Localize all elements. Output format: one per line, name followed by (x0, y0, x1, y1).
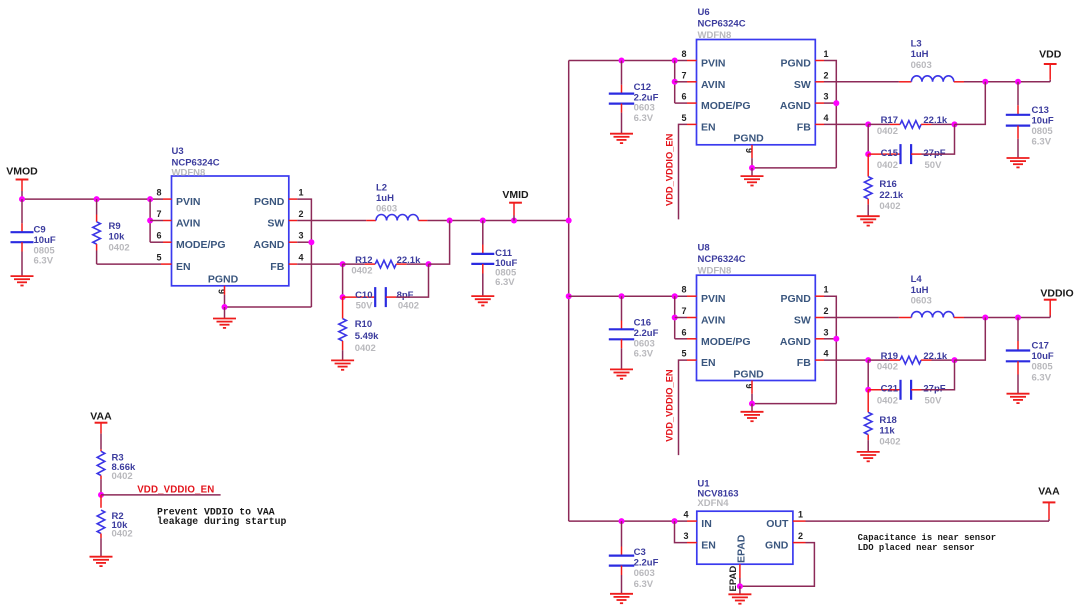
wire AGND pin3 U6 (824, 102, 836, 104)
op-amp U3 NCP6324C buck regulator body (172, 146, 289, 286)
wire EPAD U1 (739, 578, 741, 586)
junction EPAD (737, 583, 743, 589)
svg-text:0603: 0603 (376, 203, 397, 214)
svg-text:1uH: 1uH (911, 285, 929, 296)
junction C21 left (865, 387, 871, 393)
capacitor C15 (868, 144, 946, 171)
svg-text:5.49k: 5.49k (355, 331, 379, 342)
ground R18 (857, 452, 880, 461)
svg-text:R9: R9 (109, 221, 121, 232)
svg-text:AVIN: AVIN (176, 218, 200, 230)
svg-text:AVIN: AVIN (701, 315, 725, 327)
svg-text:8pF: 8pF (397, 290, 414, 301)
pin numbers U8 (681, 285, 828, 389)
svg-text:1: 1 (823, 285, 828, 295)
svg-text:EN: EN (701, 357, 716, 369)
wire PVIN-AVIN-MODE branch (149, 199, 151, 242)
junction U8 FB node (865, 357, 871, 363)
svg-text:6.3V: 6.3V (634, 349, 654, 360)
svg-text:6.3V: 6.3V (1032, 137, 1052, 148)
svg-text:WDFN8: WDFN8 (172, 167, 206, 178)
svg-text:6.3V: 6.3V (634, 579, 654, 590)
svg-text:0402: 0402 (877, 362, 898, 373)
svg-text:VMOD: VMOD (6, 166, 38, 178)
svg-text:EN: EN (701, 121, 716, 133)
svg-text:L2: L2 (376, 182, 387, 193)
junction C11 (480, 218, 486, 224)
junction R19 right (952, 357, 958, 363)
junction VMOD/R9 (94, 196, 100, 202)
wire FB node down to C15 (867, 124, 869, 154)
op-amp U8 NCP6324C buck regulator body (697, 243, 816, 381)
svg-text:2.2uF: 2.2uF (634, 558, 659, 569)
wire FB node down to C10 (342, 264, 344, 297)
svg-text:VAA: VAA (90, 410, 112, 422)
svg-text:0402: 0402 (351, 266, 372, 277)
svg-text:U6: U6 (698, 7, 710, 18)
svg-text:PGND: PGND (780, 293, 811, 305)
svg-text:VAA: VAA (1038, 486, 1060, 498)
svg-text:3: 3 (823, 327, 828, 337)
svg-text:1uH: 1uH (376, 193, 394, 204)
wire EN U6 net VDD_VDDIO_EN (679, 124, 688, 219)
svg-text:6: 6 (681, 92, 686, 102)
svg-text:WDFN8: WDFN8 (698, 30, 732, 41)
ground C11 (471, 296, 494, 305)
inductor L2 (376, 182, 418, 220)
svg-text:0603: 0603 (911, 296, 932, 307)
junction C17 top (1015, 315, 1021, 321)
pin stubs U3 (161, 199, 297, 295)
junction C16 top (619, 293, 625, 299)
svg-text:VDD_VDDIO_EN: VDD_VDDIO_EN (664, 369, 674, 442)
capacitor C21 (868, 380, 946, 407)
svg-text:2: 2 (798, 531, 803, 541)
wire PGND to ground (224, 307, 226, 319)
ground C12 (610, 134, 633, 143)
svg-text:PVIN: PVIN (176, 196, 201, 208)
junction U6 FB node (865, 121, 871, 127)
svg-text:VDD_VDDIO_EN: VDD_VDDIO_EN (664, 133, 674, 206)
pin numbers U3 (156, 188, 303, 294)
svg-text:5: 5 (681, 349, 686, 359)
wire rail to PVIN U8 (569, 295, 687, 297)
junction C12 top (619, 58, 625, 64)
junction U8 SW fb tap (982, 315, 988, 321)
capacitor C9 (11, 199, 56, 276)
junction C3 top (619, 518, 625, 524)
wire GND pin2 U1 (740, 543, 815, 587)
junction U6 AGND (833, 100, 839, 106)
wire branch to MODE/PG pin (150, 241, 163, 243)
wire VMOD stub (21, 180, 23, 192)
wire VAA to R3 (100, 423, 102, 434)
junction VMOD/C9 (19, 196, 25, 202)
svg-text:FB: FB (797, 357, 811, 369)
svg-text:0402: 0402 (355, 343, 376, 354)
wire VMID rail vertical (568, 61, 570, 522)
svg-text:SW: SW (794, 79, 811, 91)
capacitor C12 (609, 61, 659, 134)
junction rail/VMID (566, 218, 572, 224)
svg-text:R10: R10 (355, 319, 372, 330)
svg-text:6.3V: 6.3V (495, 277, 515, 288)
wire PGND pin1 down right side (297, 199, 311, 307)
note LDO placement (858, 533, 996, 553)
wire OUT to VAA (806, 520, 1050, 522)
capacitor C13 (1006, 82, 1054, 158)
ground C3 (610, 594, 633, 603)
junction R17 right (952, 121, 958, 127)
power symbol VAA divider (90, 410, 112, 422)
svg-text:R12: R12 (355, 255, 372, 266)
junction PVIN branch (147, 196, 153, 202)
junction U6 AVIN (672, 79, 678, 85)
svg-text:PGND: PGND (208, 273, 239, 285)
svg-text:AGND: AGND (780, 100, 811, 112)
capacitor C11 (471, 221, 517, 297)
junction U6 SW fb tap (982, 79, 988, 85)
resistor R3 (97, 449, 136, 495)
svg-text:PVIN: PVIN (701, 293, 726, 305)
svg-text:7: 7 (681, 306, 686, 316)
ground R10 (331, 360, 354, 369)
wire FB node down to C21 (867, 360, 869, 390)
wire SW to L3 (824, 81, 899, 83)
wire C10 right up to R12 right (396, 264, 429, 297)
svg-text:VDD: VDD (1039, 49, 1062, 61)
svg-text:3: 3 (823, 92, 828, 102)
junction C13 top (1015, 79, 1021, 85)
svg-text:AGND: AGND (253, 239, 284, 251)
svg-text:PGND: PGND (733, 133, 764, 145)
wire PGND bottom U6 (752, 167, 836, 169)
svg-text:6.3V: 6.3V (634, 113, 654, 124)
wire FB to R12 (297, 263, 342, 265)
resistor R17 (868, 115, 954, 137)
inductor L3 (911, 38, 954, 81)
svg-text:3: 3 (683, 531, 688, 541)
svg-text:10k: 10k (109, 232, 126, 243)
svg-text:5: 5 (681, 113, 686, 123)
pin numbers U1 (683, 510, 803, 592)
svg-text:1: 1 (798, 510, 803, 520)
wire EN U8 net VDD_VDDIO_EN (679, 360, 688, 455)
svg-text:1: 1 (298, 188, 303, 198)
wire SW to L4 (824, 317, 899, 319)
pin stubs U1 (687, 521, 806, 578)
ground C17 (1007, 394, 1030, 403)
svg-text:7: 7 (156, 209, 161, 219)
svg-text:PGND: PGND (254, 196, 285, 208)
wire output stub U8 (1049, 316, 1051, 318)
junction VDD_VDDIO_EN (98, 492, 104, 498)
pin stubs U6 (687, 61, 824, 159)
svg-text:C21: C21 (881, 384, 899, 395)
svg-text:LDO placed near sensor: LDO placed near sensor (858, 543, 975, 553)
junction U6 PGND9 (749, 165, 755, 171)
junction U6 branch (672, 58, 678, 64)
svg-text:0402: 0402 (877, 126, 898, 137)
svg-text:NCP6324C: NCP6324C (698, 254, 746, 265)
wire rail to IN U1 (569, 520, 687, 522)
svg-text:50V: 50V (356, 301, 374, 312)
svg-text:XDFN4: XDFN4 (697, 498, 729, 509)
power symbol VAA out (1038, 486, 1060, 503)
svg-text:GND: GND (765, 540, 789, 552)
svg-text:0402: 0402 (109, 242, 130, 253)
wire L3 to output (954, 81, 964, 83)
wire branch U6 AVIN MODE (674, 61, 676, 104)
junction U1 EN branch (672, 518, 678, 524)
wire SW to L2 (297, 220, 366, 222)
svg-text:50V: 50V (925, 396, 943, 407)
svg-text:0805: 0805 (1032, 126, 1054, 137)
svg-text:22.1k: 22.1k (397, 255, 421, 266)
svg-text:VDD_VDDIO_EN: VDD_VDDIO_EN (137, 484, 214, 495)
wire branch to AVIN pin (150, 220, 163, 222)
wire PGND pin1 U8 (824, 296, 836, 403)
svg-text:0402: 0402 (879, 437, 900, 448)
svg-text:L3: L3 (911, 38, 922, 49)
wire branch U8 AVIN MODE (674, 296, 676, 339)
junction AVIN (147, 218, 153, 224)
junction R12/C10 right (426, 261, 432, 267)
svg-text:EPAD: EPAD (736, 534, 748, 563)
svg-text:22.1k: 22.1k (879, 190, 903, 201)
svg-text:PVIN: PVIN (701, 58, 726, 70)
ground R2 (90, 557, 113, 566)
svg-text:R18: R18 (879, 415, 896, 426)
svg-text:6: 6 (156, 231, 161, 241)
svg-text:10uF: 10uF (1032, 115, 1054, 126)
svg-text:EN: EN (176, 261, 191, 273)
svg-text:6.3V: 6.3V (1032, 372, 1052, 383)
ground C16 (610, 369, 633, 378)
ground C13 (1007, 158, 1030, 167)
junction C10 left (340, 294, 346, 300)
ground R16 (857, 216, 880, 225)
power symbol VDDIO (1040, 287, 1073, 299)
junction SW/FB divider tap (447, 218, 453, 224)
junction U8 AGND (833, 336, 839, 342)
svg-text:C17: C17 (1032, 341, 1049, 352)
wire bottom PGND run (225, 306, 312, 308)
ground U6 PGND (741, 176, 764, 185)
svg-text:EPAD: EPAD (728, 566, 739, 592)
svg-text:7: 7 (681, 70, 686, 80)
junction AGND (308, 239, 314, 245)
svg-text:IN: IN (701, 518, 712, 530)
resistor R19 (868, 351, 954, 373)
inductor L4 (911, 274, 954, 317)
wire C15 right up (922, 124, 955, 154)
svg-text:0402: 0402 (879, 201, 900, 212)
svg-text:SW: SW (267, 218, 284, 230)
svg-text:NCP6324C: NCP6324C (698, 19, 746, 30)
svg-text:SW: SW (794, 315, 811, 327)
svg-text:4: 4 (823, 349, 828, 359)
svg-text:2: 2 (298, 209, 303, 219)
power symbol VMID (502, 189, 529, 203)
junction U8 PGND9 (749, 401, 755, 407)
capacitor C16 (609, 296, 659, 369)
svg-text:U8: U8 (698, 243, 710, 254)
svg-text:11k: 11k (879, 426, 895, 437)
svg-text:VDDIO: VDDIO (1040, 287, 1073, 299)
node VDD_VDDIO_EN wire (101, 494, 221, 496)
svg-text:1uH: 1uH (911, 49, 929, 60)
resistor R12 (343, 255, 429, 277)
svg-text:0402: 0402 (877, 160, 898, 171)
svg-text:0402: 0402 (112, 471, 133, 482)
wire VMID stub (513, 203, 515, 216)
svg-text:R17: R17 (881, 115, 898, 126)
svg-text:AVIN: AVIN (701, 79, 725, 91)
power symbol VMOD (6, 166, 38, 180)
junction C15 left (865, 151, 871, 157)
svg-text:WDFN8: WDFN8 (698, 266, 732, 277)
wire L4 to output (954, 317, 964, 319)
capacitor C3 (609, 521, 659, 594)
junction rail/U8 (566, 293, 572, 299)
wire tap down from SW (429, 221, 450, 265)
note startup leakage (157, 507, 286, 528)
svg-text:MODE/PG: MODE/PG (701, 336, 751, 348)
wire C21 right up (922, 360, 955, 390)
wire VMOD rail to PVIN (22, 198, 163, 200)
junction FB node (340, 261, 346, 267)
svg-text:PGND: PGND (780, 58, 811, 70)
pin numbers U6 (681, 49, 828, 153)
junction VMID stub (511, 218, 517, 224)
svg-text:PGND: PGND (733, 368, 764, 380)
wire EN branch U1 (675, 521, 688, 543)
svg-text:3: 3 (298, 231, 303, 241)
junction U8 branch (672, 293, 678, 299)
svg-text:0603: 0603 (911, 60, 932, 71)
wire PGND bottom U8 (752, 403, 836, 405)
svg-text:C3: C3 (634, 547, 646, 558)
svg-text:0402: 0402 (112, 529, 133, 540)
svg-text:C15: C15 (881, 148, 899, 159)
op-amp U1 NCV8163 LDO body (697, 479, 793, 565)
svg-text:0805: 0805 (1032, 362, 1054, 373)
wire R9 to EN (97, 263, 161, 265)
svg-text:MODE/PG: MODE/PG (701, 100, 751, 112)
resistor R9 (93, 199, 130, 264)
svg-text:leakage during startup: leakage during startup (157, 516, 286, 527)
svg-text:22.1k: 22.1k (923, 351, 947, 362)
svg-text:1: 1 (823, 49, 828, 59)
svg-text:2: 2 (823, 70, 828, 80)
svg-text:R16: R16 (879, 179, 896, 190)
power symbol VDD (1039, 49, 1062, 64)
svg-text:OUT: OUT (766, 518, 789, 530)
svg-text:8: 8 (156, 188, 161, 198)
svg-text:R19: R19 (881, 351, 898, 362)
svg-text:C13: C13 (1032, 105, 1049, 116)
wire VAA stub (1048, 519, 1050, 521)
wire AGND pin3 U8 (824, 338, 836, 340)
svg-text:AGND: AGND (780, 336, 811, 348)
svg-text:4: 4 (298, 253, 303, 263)
ground U8 PGND (741, 412, 764, 421)
junction PGND9 (222, 304, 228, 310)
svg-text:U3: U3 (172, 146, 184, 157)
wire PGND pin9 (224, 295, 226, 307)
svg-text:FB: FB (797, 121, 811, 133)
capacitor C10 (343, 287, 419, 312)
svg-text:10uF: 10uF (1032, 351, 1054, 362)
resistor R10 (339, 297, 379, 360)
svg-text:0603: 0603 (634, 568, 655, 579)
svg-text:0402: 0402 (398, 301, 419, 312)
wire rail to PVIN U6 (569, 60, 687, 62)
resistor R2 (97, 495, 132, 557)
svg-text:EN: EN (701, 540, 716, 552)
svg-text:L4: L4 (911, 274, 923, 285)
wire fb tap down U6 (955, 82, 986, 125)
wire FB to R19 (824, 359, 868, 361)
wire fb tap down U8 (955, 318, 986, 361)
svg-text:50V: 50V (925, 160, 943, 171)
op-amp U6 NCP6324C buck regulator body (697, 7, 816, 145)
svg-text:6: 6 (681, 327, 686, 337)
svg-text:MODE/PG: MODE/PG (176, 239, 226, 251)
ground U3 PGND (213, 319, 236, 328)
wire output stub U6 (1049, 80, 1051, 82)
svg-text:4: 4 (683, 510, 688, 520)
svg-text:8: 8 (681, 285, 686, 295)
svg-text:22.1k: 22.1k (923, 115, 947, 126)
resistor R16 (864, 154, 903, 216)
svg-text:2: 2 (823, 306, 828, 316)
svg-text:VMID: VMID (502, 189, 529, 201)
svg-text:4: 4 (823, 113, 828, 123)
ground U1 EPAD (728, 594, 751, 603)
svg-text:5: 5 (156, 253, 161, 263)
wire L2 to VMID node (418, 220, 427, 222)
svg-text:0402: 0402 (877, 396, 898, 407)
ground C9 (11, 276, 34, 285)
capacitor C17 (1006, 318, 1054, 394)
junction U8 AVIN (672, 315, 678, 321)
pin stubs U8 (687, 296, 824, 394)
svg-text:6.3V: 6.3V (34, 256, 54, 267)
wire FB to R17 (824, 123, 868, 125)
resistor R18 (864, 390, 900, 452)
svg-text:Capacitance is near sensor: Capacitance is near sensor (858, 533, 996, 543)
wire PGND pin1 U6 (824, 61, 836, 168)
svg-text:8: 8 (681, 49, 686, 59)
svg-text:FB: FB (270, 261, 284, 273)
wire AGND pin3 to right vertical (297, 241, 311, 243)
svg-text:C10: C10 (355, 290, 372, 301)
